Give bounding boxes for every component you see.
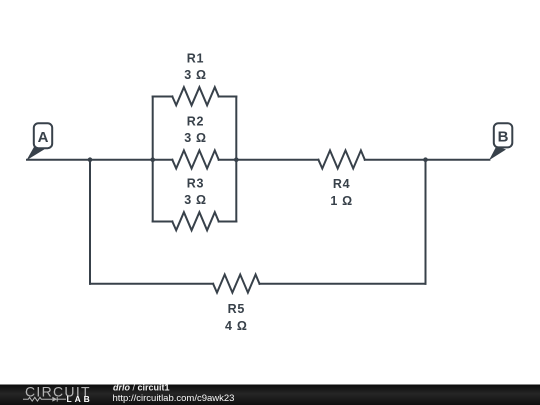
wire node3 to R4 — [236, 159, 318, 161]
wire R2 to node3 — [219, 159, 237, 161]
svg-text:3 Ω: 3 Ω — [184, 193, 207, 207]
wire R1 right lead — [219, 96, 237, 98]
resistor R2 — [172, 150, 218, 168]
svg-text:1 Ω: 1 Ω — [330, 194, 353, 208]
wire parallel-block right vertical — [235, 97, 237, 222]
svg-text:B: B — [498, 129, 509, 146]
svg-text:R1: R1 — [187, 52, 204, 66]
svg-text:R5: R5 — [228, 302, 245, 316]
resistor R5 — [213, 275, 259, 293]
svg-text:R4: R4 — [333, 177, 350, 191]
svg-text:drlo / circuit1: drlo / circuit1 — [113, 383, 170, 393]
junction node3 — [234, 157, 239, 162]
wire node4 to B — [426, 159, 490, 161]
svg-text:3 Ω: 3 Ω — [184, 131, 207, 145]
wire node2 to R2 left lead — [153, 159, 173, 161]
wire bottom right — [260, 283, 426, 285]
wire parallel-block left vertical — [152, 97, 154, 222]
svg-text:4 Ω: 4 Ω — [225, 319, 248, 333]
logo resistor-diode symbol — [23, 397, 66, 402]
resistor R1 — [172, 87, 218, 105]
wire R1 left lead — [153, 96, 173, 98]
junction node2 — [150, 157, 155, 162]
wire R3 left lead — [153, 221, 173, 223]
wire left branch vertical — [89, 160, 91, 284]
svg-text:A: A — [38, 129, 49, 146]
resistor R3 — [172, 212, 218, 230]
node label B — [489, 123, 512, 160]
svg-text:3 Ω: 3 Ω — [184, 68, 207, 82]
svg-text:http://circuitlab.com/c9awk23: http://circuitlab.com/c9awk23 — [113, 393, 235, 404]
svg-text:R3: R3 — [187, 177, 204, 191]
svg-text:R2: R2 — [187, 115, 204, 129]
junction node1 — [88, 157, 93, 162]
wire node1 to node2 — [90, 159, 153, 161]
resistor R4 — [318, 150, 364, 168]
junction node4 — [423, 157, 428, 162]
wire R4 to node4 — [365, 159, 426, 161]
wire right branch vertical — [425, 160, 427, 284]
svg-text:LAB: LAB — [67, 394, 93, 404]
wire R3 right lead — [219, 221, 237, 223]
node label A — [27, 123, 53, 160]
wire bottom left — [90, 283, 213, 285]
wire A to node1 — [27, 159, 90, 161]
